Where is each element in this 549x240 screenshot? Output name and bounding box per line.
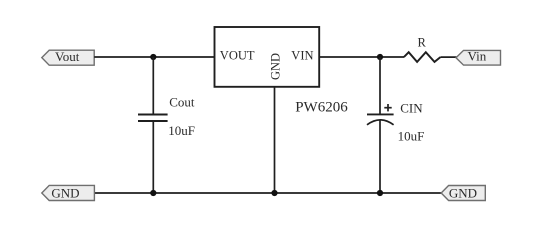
junction ground/Cout: [150, 190, 156, 196]
svg-text:VIN: VIN: [291, 48, 313, 62]
terminal Vin: [456, 49, 501, 66]
wire Vout terminal to VOUT pin: [94, 56, 214, 58]
svg-text:R: R: [418, 36, 427, 50]
terminal Vout: [42, 49, 94, 65]
terminal GND left: [42, 185, 95, 200]
svg-text:VOUT: VOUT: [220, 49, 255, 63]
svg-text:10uF: 10uF: [398, 129, 425, 144]
capacitor CIN (polarized): [367, 114, 394, 124]
wire node to Cout top plate: [152, 57, 154, 114]
capacitor Cout: [138, 115, 168, 122]
wire resistor to Vin terminal: [440, 56, 456, 58]
svg-text:CIN: CIN: [400, 100, 423, 115]
polarity plus sign (CIN): [384, 104, 391, 111]
wire Cout bottom plate to ground rail: [152, 122, 154, 193]
svg-text:Cout: Cout: [169, 94, 195, 109]
svg-text:PW6206: PW6206: [295, 99, 348, 115]
wire VIN pin to node B: [319, 56, 404, 58]
junction ground/GND pin: [271, 190, 277, 196]
terminal GND right: [441, 186, 485, 201]
wire node B to CIN top plate: [379, 57, 381, 114]
svg-text:Vout: Vout: [55, 49, 80, 64]
junction ground/CIN: [377, 190, 383, 196]
wire GND pin to ground rail: [274, 87, 276, 193]
ground rail wire: [94, 192, 441, 194]
junction node Vout/Cout: [150, 54, 156, 60]
svg-text:GND: GND: [268, 53, 282, 80]
junction node VIN/CIN: [377, 54, 383, 60]
svg-text:GND: GND: [449, 186, 477, 201]
regulator U1 PW6206 body: [215, 27, 320, 87]
resistor R: [404, 52, 441, 62]
svg-text:10uF: 10uF: [168, 123, 195, 138]
svg-text:GND: GND: [51, 185, 79, 200]
svg-text:Vin: Vin: [468, 49, 487, 64]
wire CIN bottom plate to ground rail: [379, 120, 381, 193]
